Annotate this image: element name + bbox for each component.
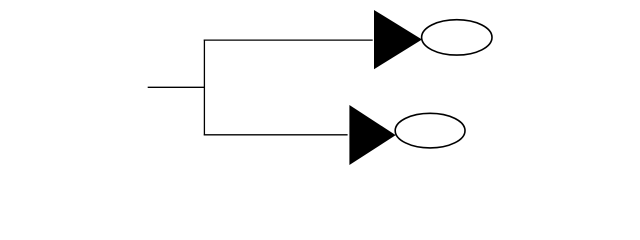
wire top branch	[204, 39, 373, 41]
wire input stub	[148, 86, 205, 88]
inverter triangle U2 bottom	[349, 105, 395, 165]
bubble ellipse top	[422, 20, 492, 55]
bubble ellipse bottom	[395, 113, 465, 148]
inverter triangle U1 top	[374, 10, 422, 69]
wire vertical branch	[203, 40, 205, 136]
wire bottom branch	[204, 134, 348, 136]
